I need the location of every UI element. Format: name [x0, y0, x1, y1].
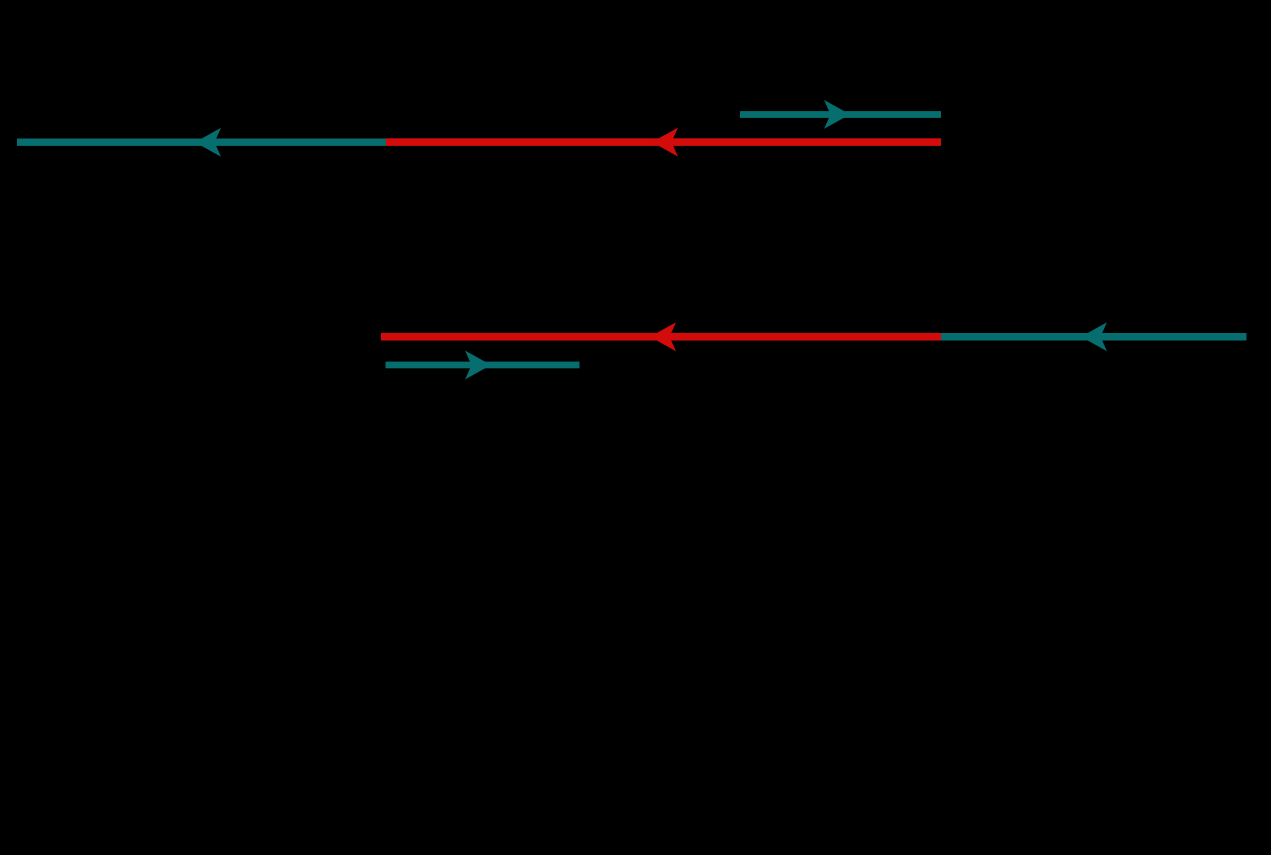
- wire: strand 1 template segment (teal, top line left part): [17, 139, 386, 146]
- arrowhead on bottom primer (points right): [465, 351, 491, 380]
- primer arrow above strand 1 (teal, points right): [740, 111, 941, 118]
- arrowhead on strand 2 teal segment (points left): [1081, 322, 1107, 351]
- primer arrow below strand 2 (teal, points right): [386, 362, 580, 369]
- arrowhead on strand 2 red segment (points left): [650, 322, 676, 351]
- wire: strand 2 template segment (teal, lower line right part): [941, 333, 1247, 341]
- arrowhead on strand 1 teal segment (points left): [195, 128, 221, 157]
- arrowhead on top primer (points right): [824, 100, 850, 129]
- wire: strand 2 new DNA segment (red, lower line left part): [381, 333, 941, 341]
- wire: strand 1 new DNA segment (red, top line right part): [386, 138, 941, 146]
- arrowhead on strand 1 red segment (points left): [652, 128, 678, 157]
